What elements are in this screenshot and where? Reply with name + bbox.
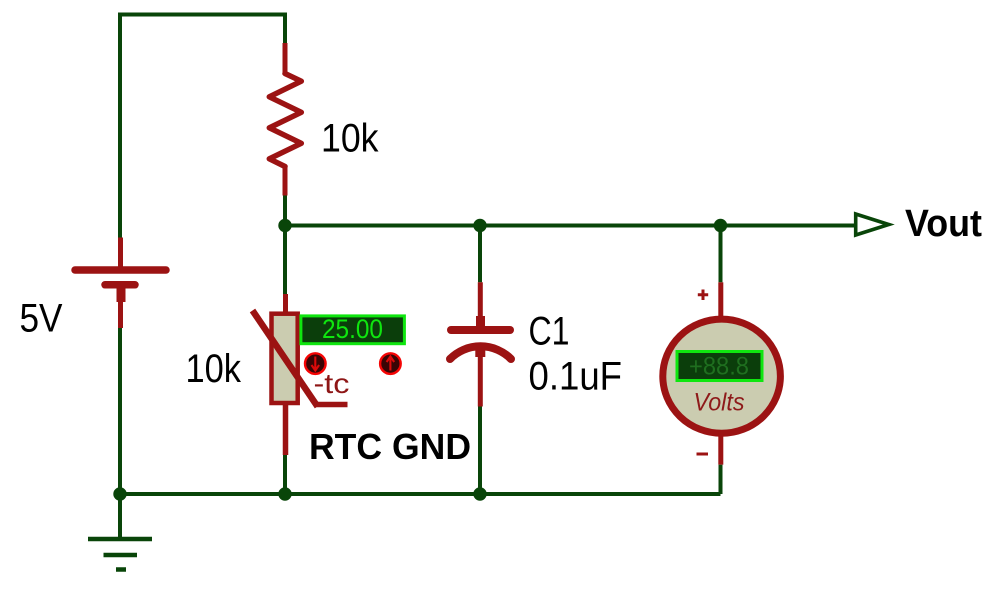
ground bar 2 <box>104 553 138 558</box>
ground bar 3 <box>116 567 126 572</box>
voltmeter plus mark <box>698 290 708 301</box>
junction node capacitor bottom <box>473 487 486 500</box>
thermistor RT1 top pin <box>283 294 288 313</box>
wire capacitor top <box>478 226 482 283</box>
battery BAT1 top pin <box>118 238 123 268</box>
svg-text:Vout: Vout <box>905 203 982 245</box>
svg-text:Volts: Volts <box>694 389 745 416</box>
svg-text:+88.8: +88.8 <box>689 352 749 380</box>
thermistor button up <box>380 353 401 374</box>
svg-text:-tc: -tc <box>314 368 350 399</box>
voltmeter display panel <box>677 352 762 381</box>
svg-text:RTC GND: RTC GND <box>309 426 471 467</box>
wire thermistor top <box>283 226 287 295</box>
voltmeter minus mark <box>697 453 709 456</box>
voltmeter bottom pin <box>718 434 723 465</box>
svg-text:10k: 10k <box>321 117 379 161</box>
resistor R1 top pin <box>283 43 288 75</box>
battery BAT1 bottom stub <box>117 288 126 302</box>
svg-text:0.1uF: 0.1uF <box>529 354 623 398</box>
junction node A resistor/thermistor <box>278 219 291 232</box>
capacitor C1 top stub <box>476 316 485 326</box>
wire resistor top vertical <box>283 15 287 44</box>
resistor R1 zigzag <box>269 74 301 167</box>
wire battery top vertical <box>118 15 122 238</box>
wire battery bottom vertical <box>118 328 122 494</box>
terminal Vout arrow <box>856 214 889 235</box>
battery BAT1 long plate <box>75 266 166 274</box>
thermistor RT1 bottom pin <box>283 403 289 455</box>
wire voltmeter top <box>719 226 723 283</box>
thermistor RT1 body <box>272 314 298 403</box>
ground stem <box>118 494 122 539</box>
wire resistor bottom to mid rail <box>283 196 287 226</box>
voltmeter top pin <box>718 282 723 318</box>
wire mid rail to Vout <box>285 224 854 228</box>
capacitor C1 top plate <box>451 326 510 334</box>
capacitor C1 bottom plate arc <box>450 346 511 359</box>
svg-text:10k: 10k <box>186 347 242 391</box>
wire capacitor bottom <box>478 407 482 495</box>
voltmeter body <box>663 319 781 433</box>
thermistor RT1 foot <box>317 402 348 408</box>
thermistor RT1 diagonal <box>253 311 318 407</box>
junction node ground <box>113 487 126 500</box>
capacitor C1 bottom pin <box>478 348 483 407</box>
resistor R1 bottom pin <box>283 165 288 196</box>
junction node voltmeter top <box>714 219 727 232</box>
thermistor display panel 25.00 <box>301 316 405 344</box>
wire thermistor bottom <box>283 455 287 494</box>
thermistor button down <box>305 353 326 374</box>
battery BAT1 short plate <box>105 281 135 289</box>
wire bottom rail <box>120 492 721 496</box>
junction node capacitor top <box>473 219 486 232</box>
junction node thermistor bottom <box>278 487 291 500</box>
ground bar 1 <box>88 537 152 542</box>
wire voltmeter bottom <box>719 465 723 494</box>
battery BAT1 bottom pin <box>118 300 123 328</box>
svg-text:5V: 5V <box>20 297 63 341</box>
wire top rail <box>120 13 285 17</box>
svg-text:25.00: 25.00 <box>322 314 383 344</box>
svg-text:C1: C1 <box>529 310 570 354</box>
capacitor C1 top pin <box>478 282 483 326</box>
